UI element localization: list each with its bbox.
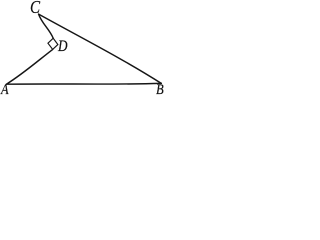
wire side AB	[6, 82, 161, 85]
node label C	[30, 0, 40, 16]
right-angle mark at D	[48, 38, 58, 49]
node label B	[156, 83, 164, 98]
wire side BC	[39, 14, 162, 83]
wire segment AD	[6, 49, 52, 84]
wire segment CD	[39, 14, 54, 38]
node label A	[1, 83, 9, 98]
node label D	[58, 39, 68, 55]
